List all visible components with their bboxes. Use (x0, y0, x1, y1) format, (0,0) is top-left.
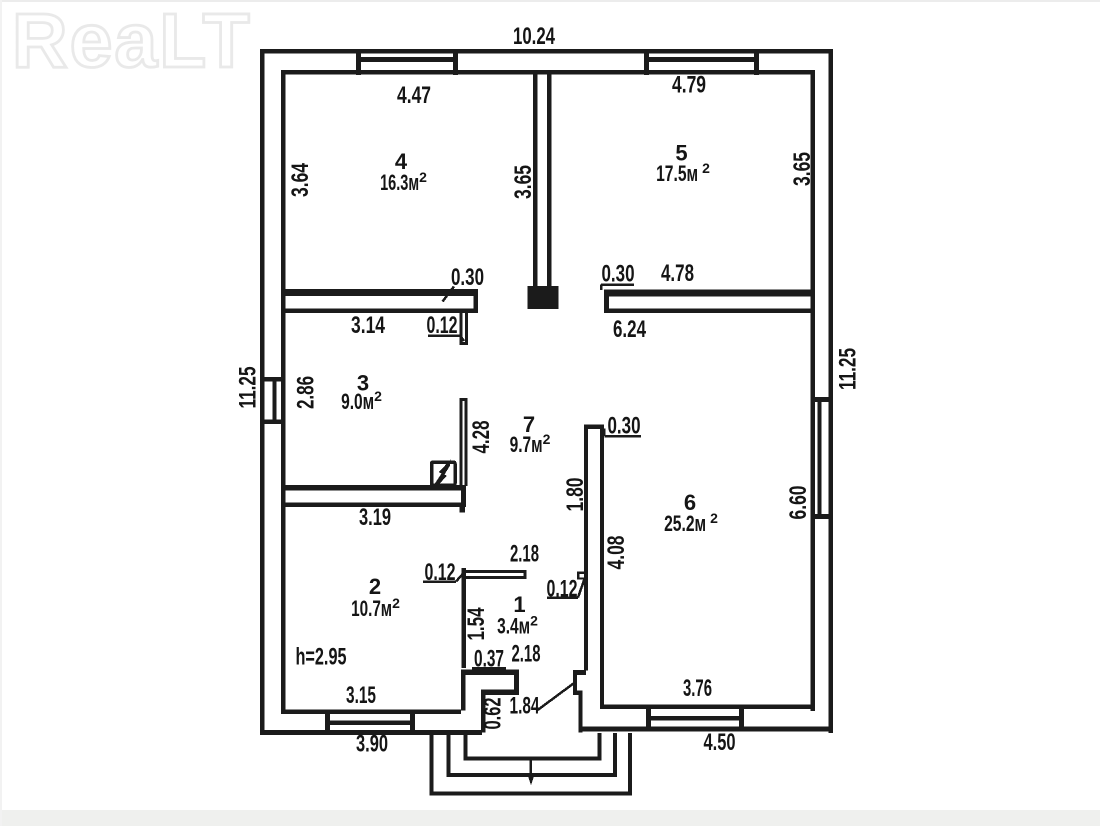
window W-top-1 right cap (453, 49, 458, 75)
svg-text:1.80: 1.80 (562, 478, 589, 512)
porch step 3 left (430, 733, 434, 795)
window W-right top cap (811, 397, 834, 402)
window W-left middle line (273, 381, 277, 420)
svg-text:3.19: 3.19 (359, 504, 391, 531)
svg-text:1.54: 1.54 (463, 607, 490, 640)
shaft wall between rooms 4 and 5: left line (533, 73, 538, 287)
wall room4/room3: bottom line (283, 309, 478, 314)
entry jog: lower bar (573, 691, 583, 696)
window W-bottom-2 left cap (646, 705, 651, 732)
wall room3/room2: thick top line (281, 485, 466, 491)
room6 left wall: right line (600, 425, 604, 709)
svg-text:2.18: 2.18 (512, 641, 541, 668)
outer wall: top inner line (281, 70, 815, 75)
porch step 2 right (613, 733, 617, 777)
svg-text:0.12: 0.12 (425, 559, 456, 586)
wall room4/room3: end cap (474, 289, 479, 313)
svg-text:0.37: 0.37 (474, 646, 504, 673)
svg-text:3.14: 3.14 (351, 312, 385, 339)
outer wall: left outer line (260, 49, 265, 735)
svg-text:11.25: 11.25 (235, 367, 262, 409)
outer wall: bottom outer line left of doorway (260, 730, 482, 735)
room6 wall notch white core (580, 574, 585, 578)
svg-text:4.28: 4.28 (468, 421, 495, 454)
svg-text:3.65: 3.65 (789, 152, 816, 186)
room6 left wall: top cap (584, 425, 604, 430)
svg-text:0.30: 0.30 (451, 264, 484, 291)
porch centerline (530, 757, 533, 781)
window W-right bottom cap (811, 514, 834, 519)
window W-bottom-2 right cap (739, 705, 744, 732)
entry jog: left line (573, 670, 577, 691)
outer wall: left inner line (281, 70, 286, 714)
window W-bottom-1 left cap (325, 710, 330, 736)
window W-bottom-1 middle line (330, 721, 410, 726)
wall room5/rooms6-7: left end cap (604, 290, 609, 314)
window W-left top cap (260, 377, 285, 382)
svg-text:11.25: 11.25 (835, 348, 862, 390)
dimension underlines and leaders (423, 285, 641, 669)
outer wall: bottom inner line under room 2 (281, 710, 461, 715)
stepped wall: left vertical (461, 670, 466, 711)
wall room4/room3: thick top line (283, 289, 478, 296)
window W-top-2 middle line (649, 57, 754, 62)
svg-text:6.24: 6.24 (613, 316, 646, 343)
partition rooms3/7: upper cap (460, 398, 468, 401)
svg-text:0.30: 0.30 (602, 261, 635, 288)
outer wall: top outer line (260, 49, 833, 54)
outer wall: bottom outer line right of doorway (581, 727, 833, 732)
porch centerline arrowhead (528, 775, 535, 785)
stepped wall: right step vertical (514, 670, 519, 695)
svg-text:3.64: 3.64 (287, 163, 314, 197)
svg-text:4.50: 4.50 (704, 729, 736, 756)
partition stub 0.12 below room4 wall (460, 313, 463, 345)
svg-text:4.47: 4.47 (397, 82, 431, 109)
svg-text:2.86: 2.86 (293, 376, 320, 409)
door tick below wall room3/room2 end (460, 507, 466, 513)
porch step 1 front (464, 757, 602, 761)
room6 left wall: left line (584, 425, 588, 671)
svg-text:ReaLT: ReaLT (12, 0, 252, 84)
watermark Realt logo (12, 0, 252, 84)
porch step 2 left (447, 733, 451, 777)
chimney block at shaft bottom (528, 286, 559, 309)
porch step 1 right (598, 733, 602, 759)
scan edge shading (0, 810, 1100, 826)
electrical panel symbol (432, 462, 456, 485)
door swing leader room4 0.30 (443, 287, 455, 302)
underline 0.37 (472, 667, 506, 670)
svg-text:3.76: 3.76 (683, 675, 712, 702)
window W-right middle line (818, 402, 822, 514)
svg-text:0.30: 0.30 (608, 413, 641, 440)
underline 0.12 top (428, 334, 460, 337)
wall room3/room2: end cap (461, 485, 466, 507)
svg-text:4.08: 4.08 (603, 536, 630, 570)
porch step 3 front (430, 792, 633, 796)
window W-bottom-2 middle line (651, 716, 739, 721)
underline 0.30 room6 stub (605, 435, 642, 438)
svg-text:4.79: 4.79 (672, 72, 706, 99)
stepped wall below room1: top bar (461, 670, 519, 676)
wall room3/room2: bottom line (281, 503, 466, 508)
svg-text:4.78: 4.78 (661, 260, 694, 287)
texts: room numbers and areas (341, 141, 718, 639)
window W-top-1 left cap (356, 49, 361, 75)
entry jog: upper bar (573, 670, 586, 675)
outer wall: bottom inner line under room 6 (600, 705, 815, 710)
svg-text:3.90: 3.90 (356, 731, 388, 758)
underline+leader 0.12 near room6 wall (547, 596, 578, 599)
svg-text:3.65: 3.65 (510, 165, 537, 199)
svg-text:0.12: 0.12 (547, 576, 578, 603)
porch step 1 left (464, 733, 468, 759)
porch step 2 front (447, 773, 618, 777)
svg-text:10.24: 10.24 (513, 23, 555, 50)
svg-text:0.12: 0.12 (427, 312, 458, 339)
room1 left partition (462, 568, 467, 668)
window W-top-2 right cap (754, 49, 759, 75)
porch step 3 right (628, 733, 632, 795)
underline 0.12 room1 (423, 580, 456, 583)
texts: horizontal dimensions (296, 23, 736, 758)
room1 top partition (hollow) (466, 570, 527, 573)
svg-text:0.62: 0.62 (480, 698, 507, 730)
window W-left bottom cap (260, 420, 285, 425)
outer wall: right outer line (829, 49, 834, 733)
stepped wall: inner vertical to bottom wall (481, 690, 486, 733)
underline 0.30 top-right (601, 283, 634, 286)
outer wall: right inner line (811, 70, 816, 711)
room6 left wall notch 0.12 (577, 572, 586, 580)
shaft wall right line (547, 73, 552, 287)
svg-text:3.15: 3.15 (346, 682, 376, 709)
window W-top-1 middle line (361, 57, 453, 62)
wall room5/rooms6-7: thick top line (604, 290, 815, 297)
wall room5/rooms6-7: bottom line (604, 309, 815, 314)
svg-text:h=2.95: h=2.95 (296, 644, 347, 671)
window W-top-2 left cap (644, 49, 649, 75)
partition rooms3/7 left line (460, 398, 463, 486)
door swing room entry 1.84 (537, 682, 576, 711)
svg-text:6.60: 6.60 (785, 486, 812, 520)
window W-bottom-1 right cap (410, 710, 415, 736)
texts: rotated dimensions (235, 152, 862, 730)
stepped wall: bottom bar (481, 690, 519, 696)
svg-text:2.18: 2.18 (510, 541, 539, 568)
partition rooms3/7 right line (465, 398, 468, 486)
svg-text:1.84: 1.84 (510, 693, 540, 720)
entry jog: line down to bottom wall (579, 691, 583, 733)
